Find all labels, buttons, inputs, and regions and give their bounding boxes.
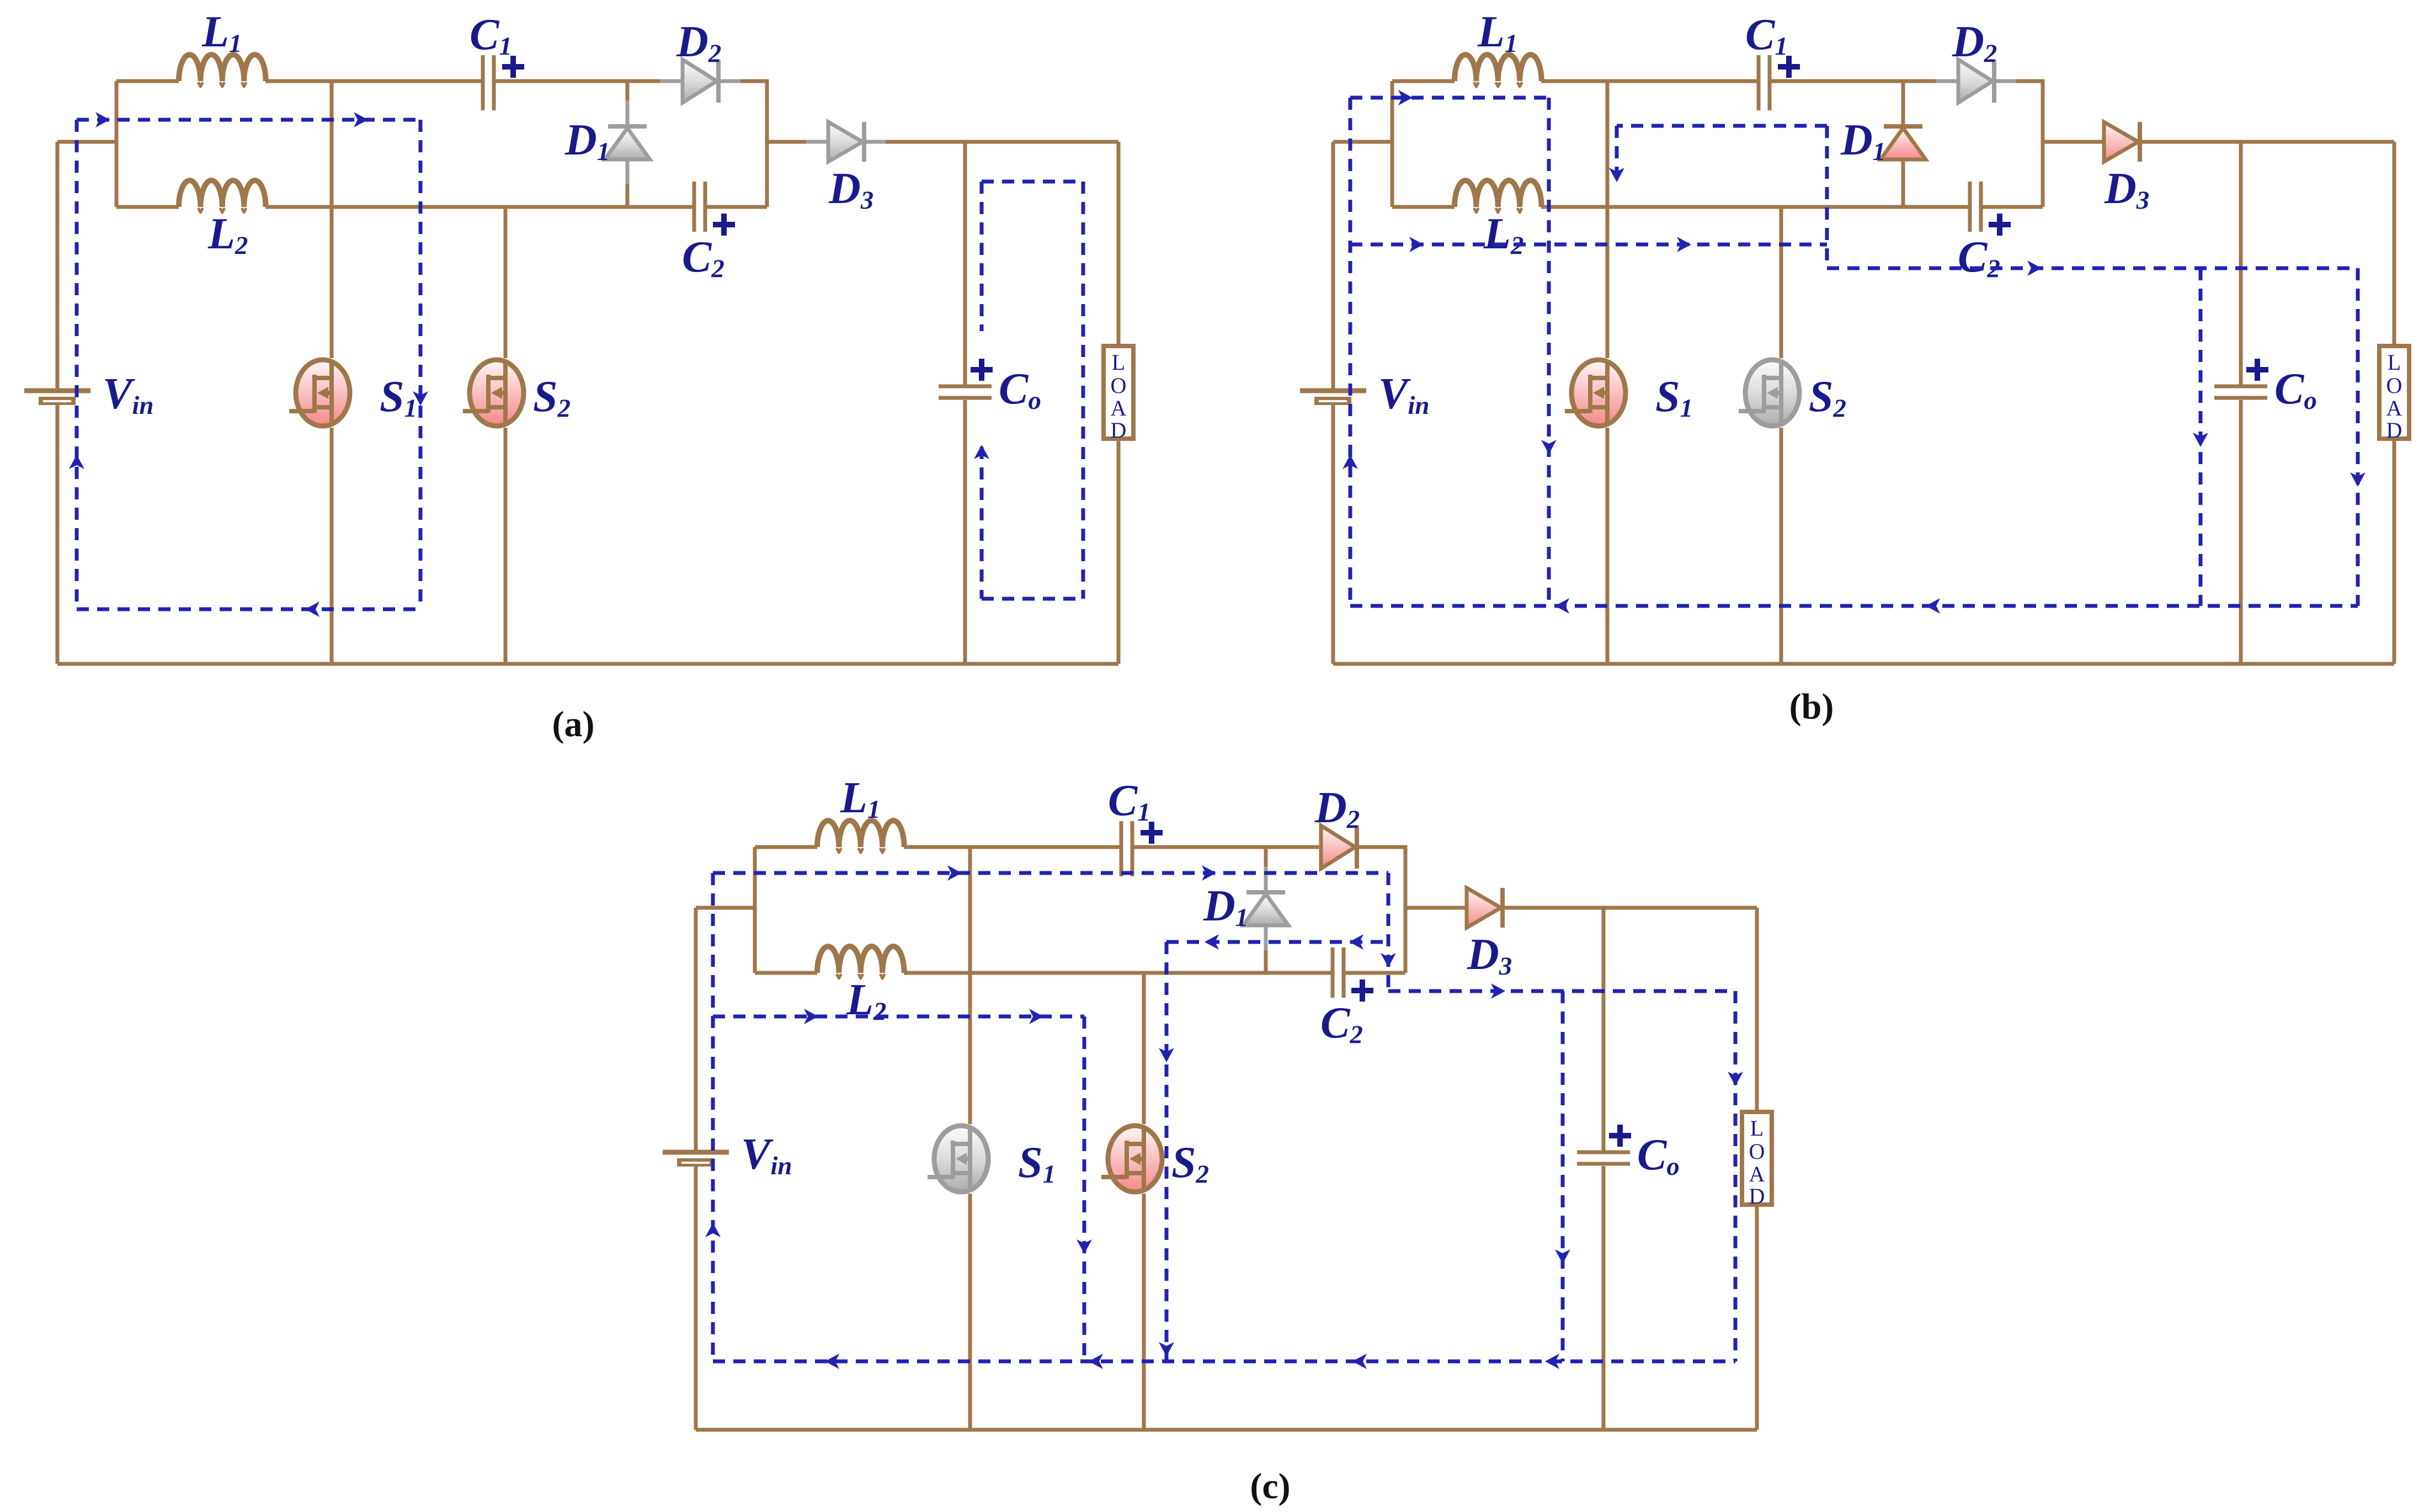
svg-text:D: D xyxy=(1749,1184,1765,1208)
svg-text:A: A xyxy=(1111,396,1127,420)
svg-text:(a): (a) xyxy=(552,704,595,744)
svg-text:(c): (c) xyxy=(1250,1466,1290,1506)
svg-text:A: A xyxy=(1749,1162,1765,1186)
svg-text:A: A xyxy=(2386,396,2402,420)
svg-text:(b): (b) xyxy=(1789,686,1834,727)
svg-text:D: D xyxy=(2386,418,2402,443)
svg-text:L: L xyxy=(2388,350,2401,375)
svg-text:O: O xyxy=(2386,373,2402,398)
svg-text:D: D xyxy=(1111,418,1127,443)
svg-text:L: L xyxy=(1112,350,1125,375)
svg-text:O: O xyxy=(1749,1139,1765,1164)
svg-text:L: L xyxy=(1750,1116,1764,1141)
svg-text:O: O xyxy=(1111,373,1127,398)
